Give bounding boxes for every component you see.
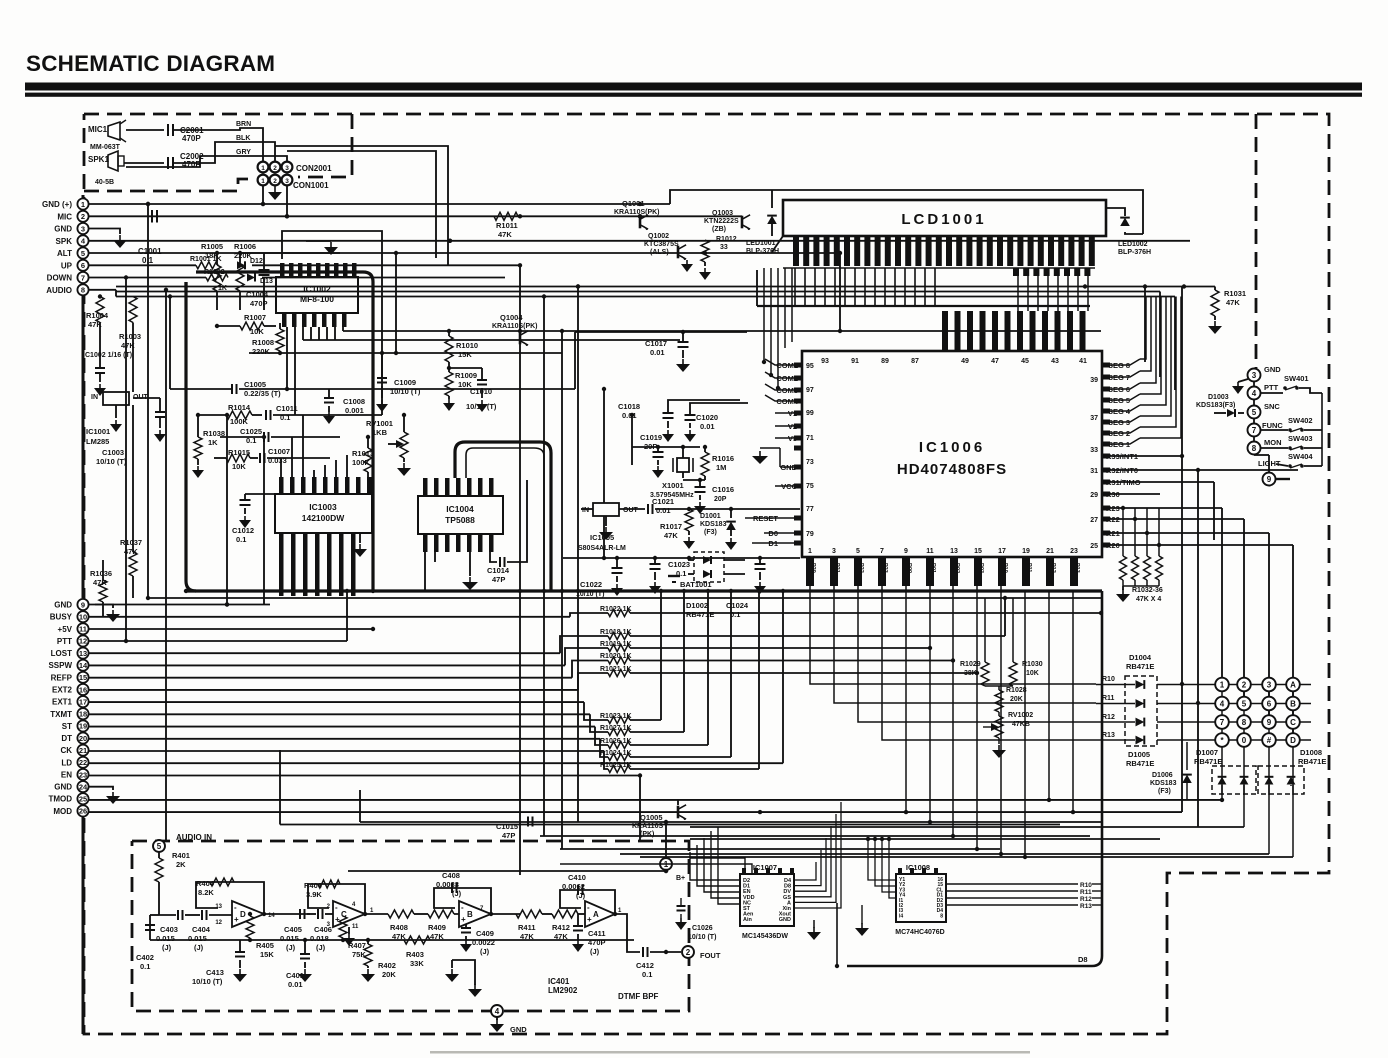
svg-text:-: - xyxy=(234,903,237,912)
svg-text:SW402: SW402 xyxy=(1288,416,1313,425)
terminal 5 ALT xyxy=(77,247,88,258)
svg-text:29: 29 xyxy=(1090,492,1098,499)
svg-text:5: 5 xyxy=(1242,700,1247,709)
dashed divider right xyxy=(1255,114,1258,368)
crystal X1001 xyxy=(677,458,689,472)
resistor R1016 xyxy=(701,452,709,476)
svg-text:3: 3 xyxy=(832,548,836,555)
svg-text:R408: R408 xyxy=(390,923,408,932)
capacitor C412 xyxy=(642,947,644,957)
svg-text:25: 25 xyxy=(79,795,87,804)
svg-text:10/10 (T): 10/10 (T) xyxy=(96,457,127,466)
svg-text:3: 3 xyxy=(1252,371,1257,380)
resistor R1030 xyxy=(1009,662,1017,686)
svg-text:0.0033: 0.0033 xyxy=(436,880,459,889)
svg-text:X1001: X1001 xyxy=(662,481,684,490)
svg-text:23: 23 xyxy=(79,770,87,779)
terminal 13 LOST xyxy=(77,647,88,658)
svg-text:D1007: D1007 xyxy=(1196,748,1218,757)
svg-text:470P: 470P xyxy=(182,134,201,143)
svg-text:15K: 15K xyxy=(458,350,472,359)
wire vertical x264 xyxy=(263,437,265,605)
svg-text:C1015: C1015 xyxy=(496,822,518,831)
svg-text:1: 1 xyxy=(261,165,265,172)
dashed box DTMF BPF xyxy=(132,841,689,1011)
svg-text:Q1003: Q1003 xyxy=(712,210,733,217)
svg-text:39: 39 xyxy=(1090,377,1098,384)
svg-text:12: 12 xyxy=(215,920,222,926)
svg-text:47K X 4: 47K X 4 xyxy=(1136,596,1161,603)
svg-text:C1008: C1008 xyxy=(343,397,365,406)
svg-text:10K: 10K xyxy=(1026,670,1039,677)
svg-text:0.015: 0.015 xyxy=(156,934,175,943)
wire MIC bus xyxy=(89,215,742,217)
terminal 5 SNC xyxy=(1248,406,1261,419)
svg-text:10/10 (T): 10/10 (T) xyxy=(390,387,421,396)
outer dashed border xyxy=(84,114,1329,1034)
svg-text:IC1002: IC1002 xyxy=(303,284,331,294)
svg-text:P22: P22 xyxy=(858,563,864,573)
svg-text:22: 22 xyxy=(79,758,87,767)
svg-text:GND (+): GND (+) xyxy=(42,200,72,209)
wire vertical x166 audio xyxy=(165,290,167,841)
svg-text:IC1001: IC1001 xyxy=(86,427,110,436)
wire keypad col 1 xyxy=(1221,685,1223,796)
wire vertical x562 xyxy=(561,331,563,849)
svg-text:7: 7 xyxy=(880,548,884,555)
svg-text:(PK): (PK) xyxy=(640,831,654,838)
svg-text:16: 16 xyxy=(79,685,87,694)
svg-text:18: 18 xyxy=(79,710,87,719)
terminal 2 MIC xyxy=(77,211,88,222)
capacitor C1012 xyxy=(244,494,246,500)
wire vertical x126 xyxy=(125,278,127,642)
capacitor C1021 xyxy=(647,504,649,514)
svg-text:7: 7 xyxy=(1220,718,1225,727)
terminal 9 GND xyxy=(77,599,88,610)
svg-text:(J): (J) xyxy=(162,943,172,952)
svg-text:1M: 1M xyxy=(716,463,726,472)
svg-text:9: 9 xyxy=(334,488,340,491)
svg-text:5: 5 xyxy=(467,490,473,493)
capacitor C1022 xyxy=(616,558,618,568)
connector CON2001 xyxy=(258,162,269,173)
svg-text:27: 27 xyxy=(1090,517,1098,524)
resistor R1004 xyxy=(96,297,104,323)
svg-text:(F3): (F3) xyxy=(1158,788,1171,795)
svg-text:REFP: REFP xyxy=(51,673,73,682)
svg-text:C1026: C1026 xyxy=(692,925,713,932)
resistor R1003 xyxy=(129,297,137,323)
svg-text:2: 2 xyxy=(686,948,691,957)
lcd comb lower right xyxy=(1013,268,1019,276)
svg-text:P21: P21 xyxy=(834,563,840,573)
diode D13 xyxy=(247,274,255,282)
svg-text:TXMT: TXMT xyxy=(50,710,72,719)
capacitor C1007 xyxy=(259,453,261,463)
svg-text:25: 25 xyxy=(1090,543,1098,550)
svg-text:20K: 20K xyxy=(1010,696,1023,703)
svg-text:RV1002: RV1002 xyxy=(1008,712,1033,719)
svg-text:0: 0 xyxy=(1242,736,1247,745)
svg-text:R404: R404 xyxy=(196,879,215,888)
svg-text:LM2902: LM2902 xyxy=(548,986,578,995)
svg-text:R12: R12 xyxy=(1102,714,1115,721)
svg-text:D1004: D1004 xyxy=(1129,653,1152,662)
thick bus loop IC1004 xyxy=(455,442,551,591)
svg-text:R10: R10 xyxy=(1102,676,1115,683)
svg-text:C408: C408 xyxy=(442,871,460,880)
svg-text:A: A xyxy=(1290,681,1296,690)
svg-text:KDS183: KDS183 xyxy=(1150,780,1177,787)
svg-text:C1009: C1009 xyxy=(394,378,416,387)
svg-text:EXT2: EXT2 xyxy=(52,685,73,694)
wire A out to C412 xyxy=(615,914,640,952)
svg-text:A: A xyxy=(593,910,599,919)
wire x198 xyxy=(197,415,199,437)
svg-text:12: 12 xyxy=(79,637,87,646)
terminal 7 FUNC xyxy=(1248,424,1261,437)
wire EXT2 xyxy=(89,689,578,691)
terminal 1 B+ xyxy=(660,858,672,870)
svg-text:MON: MON xyxy=(1264,438,1282,447)
wire keypad col 4 xyxy=(1292,685,1294,796)
potentiometer RV1002 xyxy=(998,712,1000,716)
svg-text:D13: D13 xyxy=(260,278,273,285)
key 6 xyxy=(1262,697,1276,711)
svg-text:0.01: 0.01 xyxy=(288,980,303,989)
svg-text:20P: 20P xyxy=(714,496,727,503)
svg-text:MIC: MIC xyxy=(57,212,72,221)
svg-text:TP5088: TP5088 xyxy=(445,515,475,525)
terminal 11 +5V xyxy=(77,623,88,634)
svg-text:10/10 (T): 10/10 (T) xyxy=(688,934,716,941)
svg-text:R1017: R1017 xyxy=(660,522,682,531)
feedback loop D xyxy=(196,882,264,914)
wire TMOD xyxy=(89,799,1222,801)
capacitor C1011 xyxy=(265,410,267,420)
wire UP xyxy=(89,264,196,266)
svg-text:R1037: R1037 xyxy=(120,538,142,547)
ground IC1003 xyxy=(359,533,361,543)
wire AUDIO xyxy=(89,289,116,291)
svg-text:14: 14 xyxy=(279,484,285,491)
ic IC1006 right edge pin stubs xyxy=(1102,363,1110,368)
capacitor C1008 xyxy=(328,389,330,398)
svg-text:D1001: D1001 xyxy=(700,513,721,520)
svg-text:MM-063T: MM-063T xyxy=(90,144,121,151)
svg-text:1K: 1K xyxy=(208,438,218,447)
wire EN xyxy=(89,775,640,777)
svg-text:R02: R02 xyxy=(954,563,960,573)
svg-text:R405: R405 xyxy=(256,941,274,950)
svg-text:31: 31 xyxy=(1090,468,1098,475)
svg-text:C1005: C1005 xyxy=(244,380,266,389)
key 8 xyxy=(1237,715,1251,729)
wire bus bottom5 xyxy=(690,838,1160,840)
svg-text:1: 1 xyxy=(81,200,85,209)
capacitor C404 xyxy=(185,914,200,916)
wire SPK bus xyxy=(89,240,1190,242)
wire LOST xyxy=(89,652,560,654)
regulator IC1001 LM285 xyxy=(132,323,134,393)
svg-text:13: 13 xyxy=(950,548,958,555)
svg-text:8: 8 xyxy=(940,913,943,919)
svg-text:R12: R12 xyxy=(1080,896,1092,903)
terminal 7 DOWN xyxy=(77,272,88,283)
svg-text:4: 4 xyxy=(495,1007,500,1016)
svg-text:C1010: C1010 xyxy=(470,387,492,396)
resistor R412 xyxy=(542,913,552,915)
svg-text:DTMF BPF: DTMF BPF xyxy=(618,992,659,1001)
svg-text:DOWN: DOWN xyxy=(47,274,73,283)
svg-text:R1008: R1008 xyxy=(252,338,274,347)
svg-text:C1004: C1004 xyxy=(246,290,269,299)
svg-text:2K: 2K xyxy=(176,860,186,869)
wire IC1004 bottom xyxy=(424,552,426,591)
svg-text:KRA110S(PK): KRA110S(PK) xyxy=(614,209,660,216)
svg-text:TMOD: TMOD xyxy=(48,795,72,804)
terminal 8 AUDIO xyxy=(77,284,88,295)
svg-text:8: 8 xyxy=(81,286,85,295)
wire bus bottom2 xyxy=(280,824,1060,826)
svg-text:+: + xyxy=(461,915,466,924)
svg-text:C1016: C1016 xyxy=(712,485,734,494)
wire y340 xyxy=(303,339,680,341)
svg-text:0.015: 0.015 xyxy=(188,934,207,943)
svg-text:RB471E: RB471E xyxy=(1126,759,1154,768)
key 2 xyxy=(1237,678,1251,692)
opamp A xyxy=(585,901,615,927)
wire bus A1 xyxy=(116,286,1215,288)
svg-text:220K: 220K xyxy=(252,347,271,356)
svg-text:+5V: +5V xyxy=(58,625,73,634)
svg-text:C1021: C1021 xyxy=(652,497,674,506)
key * xyxy=(1215,733,1229,747)
svg-text:GND: GND xyxy=(54,783,72,792)
svg-text:MF8-100: MF8-100 xyxy=(300,294,334,304)
terminal 16 EXT2 xyxy=(77,684,88,695)
wire fan to bottom bus xyxy=(905,586,907,812)
svg-text:+: + xyxy=(587,915,592,924)
capacitor C1005 xyxy=(231,384,233,394)
svg-text:(ALS): (ALS) xyxy=(650,249,669,256)
wire C to R408 xyxy=(365,913,388,915)
svg-text:Ain: Ain xyxy=(743,917,753,923)
wire R20 xyxy=(1102,544,1293,546)
resistor R408 xyxy=(388,910,414,918)
svg-text:12: 12 xyxy=(301,485,307,491)
svg-text:(J): (J) xyxy=(316,943,326,952)
svg-text:10: 10 xyxy=(79,612,87,621)
svg-text:(J): (J) xyxy=(194,943,204,952)
svg-text:11: 11 xyxy=(926,548,934,555)
svg-text:S80S4ALR-LM: S80S4ALR-LM xyxy=(578,545,626,552)
svg-text:93: 93 xyxy=(821,358,829,365)
svg-text:R10: R10 xyxy=(1080,882,1092,889)
svg-text:41: 41 xyxy=(1079,358,1087,365)
svg-text:RB471E: RB471E xyxy=(1298,757,1326,766)
svg-text:C1020: C1020 xyxy=(696,413,718,422)
svg-text:5: 5 xyxy=(157,842,162,851)
svg-text:C1022: C1022 xyxy=(580,580,602,589)
connector CON1001 xyxy=(258,175,269,186)
capacitor C2002 xyxy=(167,157,169,169)
svg-text:2: 2 xyxy=(273,165,277,172)
wire sw right bus xyxy=(1321,393,1323,466)
svg-text:5: 5 xyxy=(856,548,860,555)
svg-text:P10: P10 xyxy=(1002,563,1008,573)
svg-text:5: 5 xyxy=(81,249,85,258)
svg-text:D1005: D1005 xyxy=(1128,750,1150,759)
svg-text:9: 9 xyxy=(904,548,908,555)
svg-text:8: 8 xyxy=(1242,718,1247,727)
ic IC1003 142100DW xyxy=(275,494,372,533)
resistor R409 xyxy=(414,913,428,915)
svg-text:R1011: R1011 xyxy=(496,221,518,230)
svg-text:LD: LD xyxy=(61,758,72,767)
ground at terminal 24 xyxy=(89,787,113,790)
resistor R405 xyxy=(246,916,254,938)
resistor R1017 xyxy=(685,509,693,531)
svg-text:3: 3 xyxy=(1267,681,1272,690)
svg-text:2: 2 xyxy=(273,178,277,185)
svg-text:SCHEMATIC DIAGRAM: SCHEMATIC DIAGRAM xyxy=(26,51,275,76)
battery BAT1001 xyxy=(668,575,680,577)
capacitor C410 xyxy=(577,885,579,895)
terminal 9 light xyxy=(1263,473,1276,486)
terminal 6 UP xyxy=(77,260,88,271)
svg-text:SPK: SPK xyxy=(56,237,73,246)
svg-text:SW404: SW404 xyxy=(1288,452,1313,461)
wire bus bottom1 xyxy=(360,821,1101,823)
svg-text:47P: 47P xyxy=(492,575,505,584)
resistor R402 xyxy=(367,940,369,944)
key # xyxy=(1262,733,1276,747)
svg-text:C1025: C1025 xyxy=(240,427,262,436)
svg-text:7: 7 xyxy=(81,273,85,282)
svg-text:R1030: R1030 xyxy=(1022,661,1043,668)
wire LD xyxy=(89,762,783,764)
svg-text:HD4074808FS: HD4074808FS xyxy=(897,461,1007,478)
wire vertical x396 xyxy=(395,253,397,353)
terminal 3 GND sw xyxy=(1248,369,1261,382)
svg-text:C1003: C1003 xyxy=(102,448,124,457)
svg-text:IC1005: IC1005 xyxy=(590,533,614,542)
svg-text:Q1005: Q1005 xyxy=(640,813,663,822)
opamp chain wire xyxy=(159,914,176,916)
wire +5V xyxy=(89,628,373,630)
svg-text:95: 95 xyxy=(806,363,814,370)
svg-text:24: 24 xyxy=(79,782,88,791)
opamp C xyxy=(333,901,365,927)
svg-text:SW403: SW403 xyxy=(1288,434,1313,443)
svg-text:R1031: R1031 xyxy=(1224,289,1246,298)
wire SEG to bus xyxy=(1140,297,1146,360)
svg-text:BLP-376H: BLP-376H xyxy=(746,248,779,255)
svg-text:R407: R407 xyxy=(348,941,366,950)
svg-text:R1014: R1014 xyxy=(228,403,251,412)
svg-text:B: B xyxy=(1290,700,1296,709)
wire IC1003 top connections xyxy=(280,458,282,477)
thick bus right vertical xyxy=(847,591,1102,966)
svg-text:KTN2222S: KTN2222S xyxy=(704,218,739,225)
svg-text:C405: C405 xyxy=(284,925,302,934)
ground IC1008 xyxy=(861,905,863,924)
svg-text:20K: 20K xyxy=(382,970,396,979)
resistor R1012 xyxy=(701,240,709,262)
svg-text:C1014: C1014 xyxy=(487,566,510,575)
svg-text:FOUT: FOUT xyxy=(700,951,721,960)
key 0 xyxy=(1237,733,1251,747)
svg-text:GND: GND xyxy=(54,225,72,234)
svg-text:R1028: R1028 xyxy=(1006,687,1027,694)
resistor R1011 xyxy=(494,212,518,220)
wire R32/INT0 xyxy=(1102,469,1298,471)
svg-text:KRA110S(PK): KRA110S(PK) xyxy=(492,323,538,330)
svg-text:10/10 (T): 10/10 (T) xyxy=(192,977,223,986)
svg-text:R03: R03 xyxy=(978,563,984,573)
wire bus bottom3 xyxy=(690,826,1244,828)
svg-text:0.01: 0.01 xyxy=(700,422,715,431)
wire ALT bus xyxy=(89,252,840,254)
wire bus A2 xyxy=(116,291,1160,293)
capacitor C405 xyxy=(299,909,301,919)
svg-text:D: D xyxy=(240,910,246,919)
feedback loop A xyxy=(560,890,615,914)
svg-text:(ZB): (ZB) xyxy=(712,226,726,233)
feedback loop C xyxy=(308,884,365,914)
terminal 24 GND xyxy=(77,781,88,792)
svg-text:21: 21 xyxy=(1046,548,1054,555)
ic IC1002 MF8-100 xyxy=(276,277,358,313)
wire R21 xyxy=(1102,532,1269,534)
ground IC1004 xyxy=(469,552,471,576)
svg-text:11: 11 xyxy=(79,625,87,634)
svg-text:R01: R01 xyxy=(930,563,936,573)
svg-text:C410: C410 xyxy=(568,873,586,882)
wire R22 xyxy=(1102,518,1244,520)
wire R33/INT1 xyxy=(1102,455,1182,457)
svg-text:91: 91 xyxy=(851,358,859,365)
terminal 2 FOUT xyxy=(682,946,694,958)
svg-text:13: 13 xyxy=(79,649,87,658)
svg-text:C404: C404 xyxy=(192,925,211,934)
capacitor C1017 xyxy=(682,332,684,342)
lcd pin comb xyxy=(793,237,799,266)
wire bus under IC left xyxy=(756,270,758,306)
svg-text:11: 11 xyxy=(312,485,318,491)
terminal 1 GND (+) xyxy=(77,198,88,209)
svg-text:21: 21 xyxy=(79,746,87,755)
svg-text:+: + xyxy=(234,915,239,924)
wire bus bottom6 xyxy=(560,848,1000,850)
svg-text:C409: C409 xyxy=(476,929,494,938)
svg-text:1: 1 xyxy=(808,548,812,555)
svg-text:RB471E: RB471E xyxy=(1194,757,1222,766)
svg-text:19: 19 xyxy=(79,722,87,731)
capacitor C403 xyxy=(177,910,179,920)
capacitor C1001 xyxy=(151,210,153,223)
terminal 21 CK xyxy=(77,745,88,756)
svg-text:7: 7 xyxy=(356,488,362,491)
wire PTT xyxy=(89,640,347,642)
wire IC1002 bottom fan xyxy=(249,352,562,354)
comb below IC1006 xyxy=(806,557,814,586)
svg-text:C411: C411 xyxy=(588,929,606,938)
resistor R407 xyxy=(339,916,347,938)
svg-text:0.01: 0.01 xyxy=(656,506,671,515)
